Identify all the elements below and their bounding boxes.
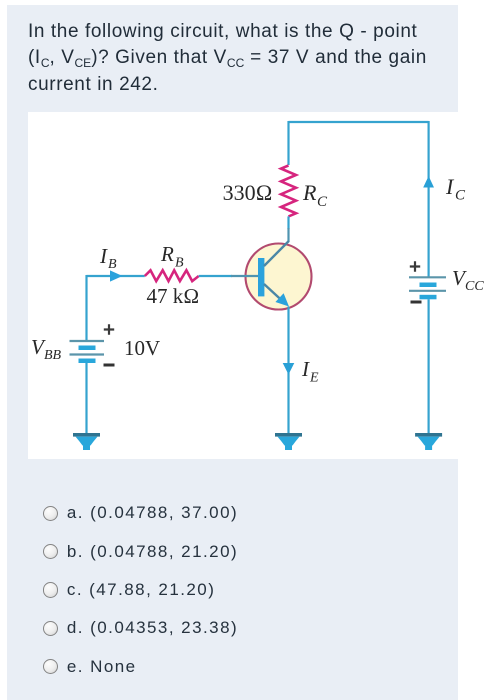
plus sign VCC — [410, 261, 420, 271]
wire battery VBB to ground — [85, 363, 87, 434]
transistor base bar — [258, 258, 264, 296]
wire collector branch top — [287, 121, 289, 165]
arrow IB — [110, 270, 123, 281]
svg-text:C: C — [455, 188, 466, 204]
svg-text:I: I — [445, 174, 455, 199]
svg-text:B: B — [108, 257, 117, 272]
battery VCC bar short top — [420, 283, 437, 288]
svg-text:R: R — [160, 242, 174, 266]
transistor emitter arrow — [275, 293, 289, 306]
svg-text:330Ω: 330Ω — [223, 180, 273, 205]
battery VCC bar short bottom — [420, 295, 437, 300]
wire emitter to ground — [287, 307, 289, 434]
battery VBB bar short — [79, 346, 96, 351]
transistor collector line — [264, 241, 289, 266]
minus sign VCC — [411, 301, 422, 304]
wire resistor to transistor — [287, 216, 289, 229]
svg-text:BB: BB — [44, 348, 62, 363]
battery VBB plate long bottom — [70, 353, 105, 355]
svg-text:I: I — [99, 244, 108, 268]
circuit figure — [28, 112, 490, 459]
svg-text:C: C — [317, 194, 328, 210]
resistor RC — [281, 166, 296, 217]
question text — [28, 19, 458, 98]
ground middle — [275, 433, 302, 450]
arrow IE — [283, 363, 295, 375]
svg-text:R: R — [302, 180, 317, 205]
svg-text:CC: CC — [465, 279, 484, 294]
answer options — [43, 494, 463, 686]
battery VCC plate long bottom — [409, 290, 446, 292]
wire left branch vertical to battery — [85, 275, 87, 341]
svg-text:I: I — [301, 357, 310, 381]
resistor RB — [145, 270, 199, 281]
wire right branch upper — [428, 121, 430, 277]
svg-text:E: E — [309, 371, 319, 386]
wire base right segment — [199, 275, 232, 277]
svg-text:10V: 10V — [124, 336, 160, 360]
battery VCC plate long top — [409, 276, 446, 278]
transistor Q1 circle — [246, 244, 312, 310]
ground left — [73, 433, 100, 450]
transistor emitter line — [264, 284, 283, 302]
wire base left segment — [87, 275, 145, 277]
arrow IC — [423, 176, 434, 188]
battery VBB bar short bottom — [79, 359, 96, 364]
battery VBB plate long top — [70, 340, 105, 342]
svg-text:47 kΩ: 47 kΩ — [147, 284, 200, 308]
wire top horizontal — [289, 121, 429, 123]
svg-text:B: B — [175, 256, 184, 271]
ground right — [415, 433, 442, 450]
wire battery VCC to ground — [428, 299, 430, 433]
minus sign VBB — [104, 364, 115, 367]
plus sign VBB — [104, 324, 114, 334]
